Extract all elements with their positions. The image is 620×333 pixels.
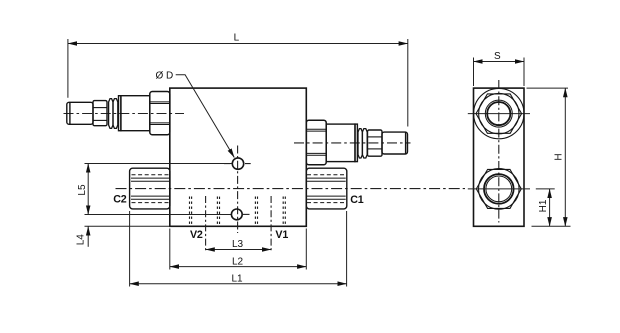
V2 port centerline bbox=[205, 196, 207, 253]
L dimension line bbox=[68, 43, 408, 45]
V1 drilling hidden walls bbox=[255, 197, 285, 227]
right cartridge valve: small hex nut bbox=[368, 130, 383, 156]
svg-text:H: H bbox=[554, 153, 565, 160]
S dimension line bbox=[474, 61, 525, 63]
svg-text:H1: H1 bbox=[538, 199, 549, 212]
S dimension extension lines bbox=[474, 58, 525, 87]
lower gauge hole crosshair dash bbox=[243, 213, 250, 215]
svg-text:L: L bbox=[234, 33, 240, 44]
svg-text:L4: L4 bbox=[76, 234, 87, 246]
upper port: bore circle bbox=[487, 102, 510, 125]
upper port horizontal crosshair bbox=[468, 113, 530, 115]
L4/L5 extension line (lower hole axis) bbox=[85, 214, 232, 216]
V2 drilling hidden walls bbox=[190, 197, 220, 227]
horizontal main centerline through C1/C2 axis bbox=[116, 188, 466, 190]
left cartridge valve: large hex nut bbox=[150, 92, 170, 135]
L4 extension line (block bottom) bbox=[85, 225, 170, 227]
L dimension extension lines bbox=[68, 39, 408, 127]
upper gauge hole crosshair dashes bbox=[224, 163, 251, 165]
L2 extension lines bbox=[170, 229, 306, 270]
H1 extension line bbox=[536, 188, 555, 190]
L1 extension lines bbox=[130, 211, 347, 287]
side view block bbox=[474, 88, 525, 226]
right cartridge axis centerline bbox=[294, 142, 411, 144]
left cartridge valve: washer stack bbox=[109, 99, 118, 129]
svg-text:Ø D: Ø D bbox=[156, 71, 174, 82]
left cartridge valve: ring + body bbox=[119, 96, 150, 131]
right cartridge valve: large hex nut bbox=[306, 120, 326, 165]
svg-text:V2: V2 bbox=[190, 229, 203, 241]
H dimension line bbox=[564, 88, 566, 226]
V1 port centerline bbox=[270, 196, 272, 253]
lower port: bore circle bbox=[484, 174, 514, 204]
C2 boss thread lines bbox=[131, 175, 170, 203]
svg-text:L3: L3 bbox=[232, 239, 244, 250]
upper port: hex nut bbox=[476, 94, 522, 133]
lower port crosshair (solid across block) bbox=[468, 188, 530, 190]
upper port: thread circle bbox=[485, 100, 512, 127]
svg-text:L1: L1 bbox=[231, 274, 243, 285]
C2 port boss bbox=[130, 168, 170, 209]
svg-text:S: S bbox=[494, 51, 501, 62]
C1 boss thread lines bbox=[307, 175, 346, 203]
lower port: hex inscribed circle bbox=[479, 169, 520, 210]
svg-text:L2: L2 bbox=[232, 256, 244, 267]
vertical centerline through gauge holes bbox=[237, 146, 239, 234]
Ø D leader line bbox=[176, 75, 235, 158]
L3 dimension line bbox=[206, 249, 272, 251]
C1 port boss bbox=[306, 168, 347, 209]
right cartridge valve: washer stack bbox=[358, 129, 367, 158]
lower gauge hole bbox=[231, 209, 242, 220]
left cartridge axis centerline bbox=[64, 113, 185, 115]
L5 dimension line bbox=[87, 164, 89, 215]
H1 dimension line bbox=[549, 189, 551, 226]
L2 dimension line bbox=[170, 266, 306, 268]
side view vertical centerline bbox=[498, 80, 500, 223]
svg-text:C2: C2 bbox=[113, 193, 127, 205]
upper gauge hole (Ø D) bbox=[232, 158, 243, 169]
L1 dimension line bbox=[130, 283, 347, 285]
L4 dimension line bbox=[87, 226, 89, 246]
svg-text:V1: V1 bbox=[275, 229, 288, 241]
H extension lines bbox=[527, 88, 571, 226]
lower port: hex nut bbox=[476, 169, 521, 208]
upper port: spot-face circle bbox=[474, 88, 524, 138]
right cartridge valve: body + ring bbox=[326, 124, 357, 162]
lower port: thread circle bbox=[486, 176, 512, 202]
svg-text:C1: C1 bbox=[350, 194, 364, 206]
left cartridge valve: small hex nut bbox=[93, 101, 107, 126]
right cartridge valve: stem bbox=[382, 132, 408, 154]
svg-text:L5: L5 bbox=[77, 184, 88, 196]
upper port: hex inscribed circle bbox=[479, 93, 519, 133]
main valve body block (front view) bbox=[170, 88, 306, 226]
L5 extension line (upper hole axis) bbox=[85, 163, 232, 165]
left cartridge valve: stem bbox=[67, 102, 93, 124]
